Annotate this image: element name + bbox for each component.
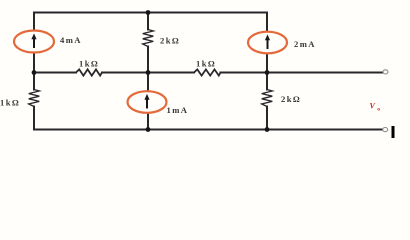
svg-text:1mA: 1mA [167, 105, 189, 115]
svg-text:1kΩ: 1kΩ [79, 59, 99, 69]
svg-text:2kΩ: 2kΩ [160, 36, 180, 46]
svg-text:o: o [377, 107, 380, 113]
svg-text:1kΩ: 1kΩ [0, 98, 20, 108]
svg-text:4mA: 4mA [60, 35, 82, 45]
svg-text:1kΩ: 1kΩ [196, 59, 216, 69]
svg-text:2kΩ: 2kΩ [281, 94, 301, 104]
svg-text:V: V [370, 102, 376, 111]
svg-text:2mA: 2mA [294, 39, 316, 49]
